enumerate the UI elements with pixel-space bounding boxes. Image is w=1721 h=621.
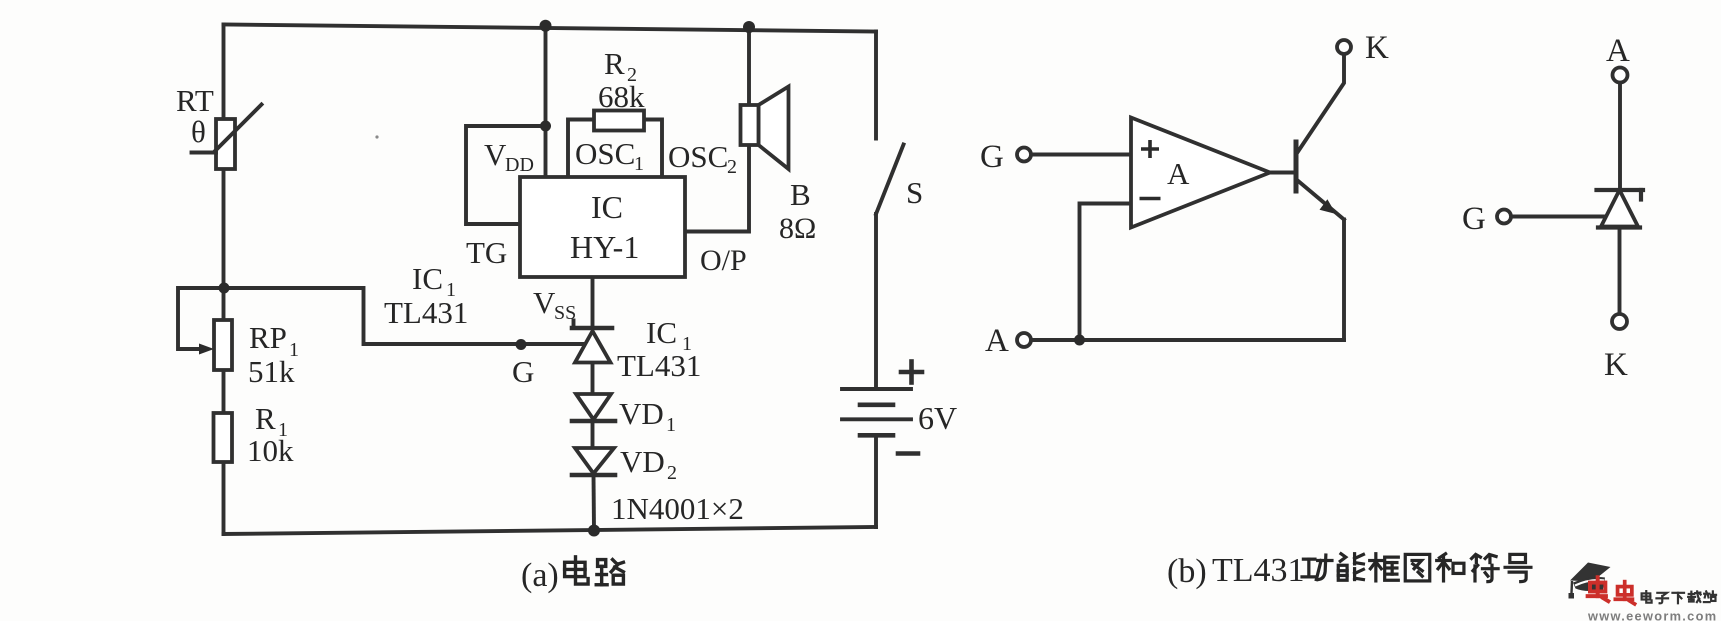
svg-text:O/P: O/P (700, 244, 747, 277)
svg-text:K: K (1604, 347, 1628, 383)
svg-text:8Ω: 8Ω (779, 212, 816, 245)
svg-text:6V: 6V (918, 400, 957, 436)
svg-text:IC: IC (591, 189, 623, 225)
svg-text:68k: 68k (598, 79, 645, 114)
svg-text:V: V (533, 285, 556, 320)
svg-text:1N4001×2: 1N4001×2 (611, 491, 744, 526)
svg-text:HY-1: HY-1 (570, 229, 639, 265)
svg-text:2: 2 (667, 462, 677, 484)
svg-text:OSC: OSC (575, 136, 635, 171)
svg-text:G: G (980, 139, 1004, 175)
svg-text:A: A (1606, 33, 1630, 69)
svg-text:S: S (906, 175, 923, 210)
svg-text:1: 1 (634, 153, 644, 175)
svg-text:θ: θ (191, 114, 206, 149)
svg-text:VD: VD (620, 444, 665, 479)
svg-text:RP: RP (249, 320, 287, 355)
svg-text:10k: 10k (247, 433, 294, 468)
svg-text:2: 2 (727, 156, 737, 178)
svg-text:R: R (255, 401, 276, 436)
svg-text:R: R (604, 46, 625, 81)
svg-text:K: K (1365, 30, 1389, 66)
svg-text:V: V (484, 137, 507, 172)
svg-text:A: A (1167, 156, 1190, 191)
svg-text:(b): (b) (1167, 553, 1207, 590)
svg-text:SS: SS (554, 302, 576, 324)
svg-text:IC: IC (412, 261, 443, 296)
svg-text:VD: VD (619, 396, 664, 431)
svg-text:www.eeworm.com: www.eeworm.com (1587, 609, 1717, 621)
svg-text:G: G (512, 354, 534, 389)
svg-text:IC: IC (646, 315, 677, 350)
svg-text:1: 1 (666, 414, 676, 436)
svg-text:TL431: TL431 (384, 295, 468, 330)
svg-text:G: G (1462, 201, 1486, 237)
svg-text:DD: DD (505, 154, 534, 176)
svg-text:TG: TG (466, 235, 507, 270)
svg-text:51k: 51k (248, 354, 295, 389)
svg-text:TL431: TL431 (1212, 552, 1305, 589)
svg-text:RT: RT (176, 83, 214, 118)
svg-text:OSC: OSC (668, 139, 728, 174)
svg-text:TL431: TL431 (617, 348, 701, 383)
svg-text:A: A (985, 323, 1009, 359)
svg-text:B: B (790, 177, 811, 212)
svg-text:(a): (a) (521, 557, 559, 594)
